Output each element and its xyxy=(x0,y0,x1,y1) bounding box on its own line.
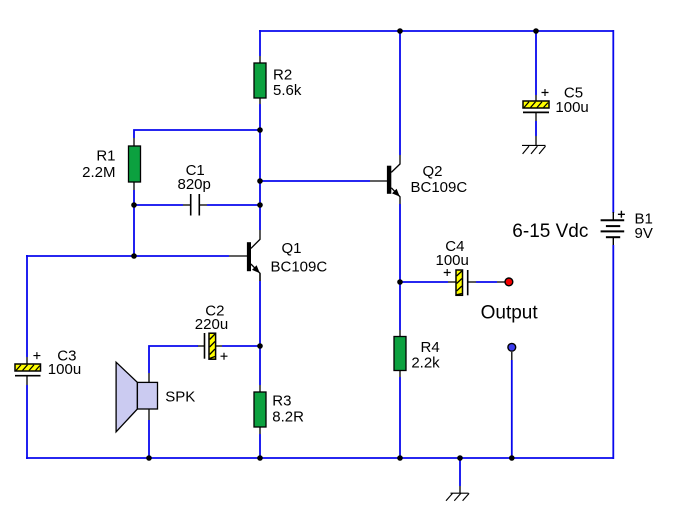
wire bottom rail xyxy=(26,457,614,459)
junction node C2 / Q1 emitter xyxy=(257,343,263,349)
junction node C4 / Q2 emitter xyxy=(397,279,403,285)
svg-text:220u: 220u xyxy=(195,316,228,333)
svg-text:R3: R3 xyxy=(272,392,291,409)
wire top rail xyxy=(259,30,614,32)
svg-text:8.2R: 8.2R xyxy=(272,408,304,425)
wire R2 top xyxy=(259,30,261,56)
wire R3 top xyxy=(259,346,261,385)
svg-text:6-15 Vdc: 6-15 Vdc xyxy=(512,221,588,242)
svg-text:SPK: SPK xyxy=(165,388,195,405)
svg-text:Q1: Q1 xyxy=(282,240,302,257)
wire speaker bottom xyxy=(148,409,150,420)
wire R2 bottom to Q1 collector xyxy=(259,98,261,104)
wire C2 right xyxy=(222,345,261,347)
wire R4 bottom xyxy=(399,371,401,378)
junction node R1 bottom / base wire xyxy=(131,253,137,259)
output terminal positive (red) xyxy=(505,278,513,286)
svg-text:100u: 100u xyxy=(436,252,469,269)
speaker SPK xyxy=(116,362,157,432)
wire R1 bottom xyxy=(133,182,135,190)
wire R4 top xyxy=(399,282,401,330)
resistor R3 xyxy=(254,392,266,427)
svg-text:Q2: Q2 xyxy=(423,163,443,180)
wire Q2 collector xyxy=(399,30,401,155)
junction node ground / bottom rail xyxy=(457,455,463,461)
C2 label xyxy=(195,303,228,334)
svg-text:Output: Output xyxy=(481,302,539,323)
wire blue terminal to bottom rail xyxy=(511,352,513,360)
capacitor C3 xyxy=(15,352,41,385)
junction node C1 left / R1 column xyxy=(131,202,137,208)
wire left rail xyxy=(26,255,28,357)
wire C1 left xyxy=(134,204,183,206)
junction node R4 / bottom rail xyxy=(397,455,403,461)
svg-text:R1: R1 xyxy=(96,148,115,165)
wire C4 left xyxy=(400,281,448,283)
B1 label xyxy=(635,210,653,242)
resistor R1 xyxy=(129,146,141,182)
junction node C1 right / R2 column xyxy=(257,202,263,208)
capacitor C2 xyxy=(205,333,228,360)
junction node top rail / C5 xyxy=(533,28,539,34)
transistor Q2 xyxy=(387,164,400,205)
wire right rail top xyxy=(612,30,614,213)
wire C1 right xyxy=(199,204,207,206)
wire right rail bottom xyxy=(612,245,614,459)
wire C3 to bottom rail xyxy=(26,385,28,459)
wire Q2 base xyxy=(260,180,370,182)
wire ground stub xyxy=(459,458,461,486)
svg-text:2.2M: 2.2M xyxy=(82,164,115,181)
svg-text:100u: 100u xyxy=(48,361,81,378)
svg-text:820p: 820p xyxy=(178,176,211,193)
wire Q1 base xyxy=(26,255,229,257)
C4 label xyxy=(436,238,469,269)
Q2 label xyxy=(411,163,468,196)
transistor Q1 xyxy=(247,230,260,281)
svg-text:BC109C: BC109C xyxy=(271,259,328,276)
wire Q2 emitter to C4 node xyxy=(399,204,401,283)
wire C5 top xyxy=(535,30,537,95)
svg-text:100u: 100u xyxy=(555,99,588,116)
ground (C5) xyxy=(522,145,546,154)
R1 label xyxy=(82,148,115,181)
wire R3 bottom xyxy=(259,427,261,434)
R2 label xyxy=(273,66,302,99)
R3 label xyxy=(272,392,304,425)
C3 label xyxy=(48,347,81,377)
R4 label xyxy=(411,339,440,372)
output terminal negative (blue) xyxy=(508,343,516,351)
ground (bottom rail) xyxy=(446,493,469,501)
svg-text:2.2k: 2.2k xyxy=(411,355,440,372)
capacitor C5 xyxy=(523,89,549,121)
junction node Q2 base / R2 column xyxy=(257,178,263,184)
wire Q1 emitter down xyxy=(259,273,261,281)
wire C2 left to speaker xyxy=(197,345,205,347)
svg-text:R2: R2 xyxy=(273,66,292,83)
wire C5 to ground xyxy=(535,121,537,136)
capacitor C1 xyxy=(191,194,200,216)
junction node R3 / bottom rail xyxy=(257,455,263,461)
junction node R1 top / R2 column xyxy=(257,127,263,133)
resistor R4 xyxy=(394,337,406,371)
capacitor C4 xyxy=(444,269,468,295)
wire C4 right xyxy=(468,281,476,283)
resistor R2 xyxy=(254,63,266,98)
junction node top rail / Q2 collector xyxy=(397,28,403,34)
svg-text:9V: 9V xyxy=(635,225,653,242)
battery B1 xyxy=(601,211,625,246)
Q1 label xyxy=(271,240,328,276)
svg-text:5.6k: 5.6k xyxy=(273,82,302,99)
junction node blue terminal / bottom rail xyxy=(509,455,515,461)
C5 label xyxy=(555,85,588,116)
svg-text:BC109C: BC109C xyxy=(411,179,468,196)
svg-text:R4: R4 xyxy=(421,339,440,356)
wire R1 top xyxy=(134,130,261,138)
junction node speaker / bottom rail xyxy=(146,455,152,461)
C1 label xyxy=(178,162,211,193)
